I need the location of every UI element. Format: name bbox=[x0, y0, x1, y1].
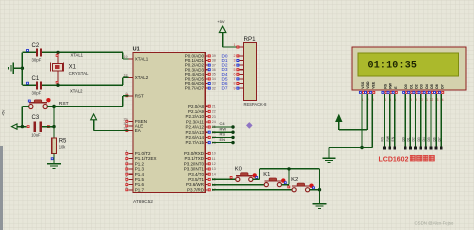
svg-text:1: 1 bbox=[126, 149, 128, 153]
svg-text:1: 1 bbox=[234, 43, 236, 47]
svg-text:CRYSTAL: CRYSTAL bbox=[69, 71, 89, 76]
svg-text:D7: D7 bbox=[440, 84, 444, 89]
svg-text:36: 36 bbox=[212, 68, 216, 72]
svg-text:D0: D0 bbox=[401, 137, 405, 141]
svg-text:XTAL1: XTAL1 bbox=[71, 52, 84, 57]
svg-text:C3: C3 bbox=[32, 115, 40, 121]
svg-text:22: 22 bbox=[212, 110, 216, 114]
svg-text:XTAL2: XTAL2 bbox=[70, 88, 83, 93]
svg-text:2: 2 bbox=[234, 54, 236, 58]
svg-text:24: 24 bbox=[212, 120, 216, 124]
svg-text:RS: RS bbox=[384, 83, 388, 89]
svg-text:4: 4 bbox=[126, 165, 128, 169]
svg-text:VDD: VDD bbox=[366, 81, 370, 89]
svg-text:P1.7: P1.7 bbox=[135, 187, 145, 192]
svg-text:D2: D2 bbox=[412, 137, 416, 141]
svg-text:RP1: RP1 bbox=[244, 36, 257, 43]
svg-text:3: 3 bbox=[126, 160, 128, 164]
svg-text:U1: U1 bbox=[133, 47, 140, 53]
svg-text:EA: EA bbox=[135, 128, 141, 133]
svg-text:K2: K2 bbox=[291, 177, 298, 183]
svg-text:33: 33 bbox=[212, 82, 216, 86]
svg-text:P0.7/AD7: P0.7/AD7 bbox=[185, 86, 205, 91]
svg-text:7: 7 bbox=[234, 77, 236, 81]
svg-text:X1: X1 bbox=[69, 65, 77, 71]
svg-text:6: 6 bbox=[126, 175, 128, 179]
svg-text:EN: EN bbox=[220, 137, 226, 142]
svg-text:14: 14 bbox=[212, 172, 216, 176]
svg-text:12: 12 bbox=[212, 162, 216, 166]
svg-text:7: 7 bbox=[126, 181, 128, 185]
svg-text:C2: C2 bbox=[32, 43, 40, 49]
svg-text:D3: D3 bbox=[417, 137, 421, 141]
svg-text:RST: RST bbox=[135, 93, 144, 98]
svg-text:D5: D5 bbox=[427, 137, 431, 141]
svg-text:30pF: 30pF bbox=[32, 90, 42, 95]
svg-text:RW: RW bbox=[386, 135, 390, 141]
svg-text:VSS: VSS bbox=[361, 81, 365, 89]
svg-text:D3: D3 bbox=[420, 84, 424, 89]
svg-text:CSDN @Alex-Fejso: CSDN @Alex-Fejso bbox=[415, 221, 454, 226]
svg-text:+5v: +5v bbox=[2, 110, 6, 116]
svg-text:LCD1602: LCD1602 bbox=[379, 156, 409, 163]
svg-text:D2: D2 bbox=[415, 84, 419, 89]
svg-text:AT89C52: AT89C52 bbox=[133, 199, 153, 205]
svg-text:K0: K0 bbox=[235, 167, 242, 173]
svg-text:RW: RW bbox=[389, 82, 393, 88]
svg-text:D1: D1 bbox=[409, 84, 413, 89]
svg-text:RS: RS bbox=[381, 136, 385, 141]
svg-text:30pF: 30pF bbox=[32, 58, 42, 63]
svg-text:XTAL1: XTAL1 bbox=[135, 57, 149, 62]
svg-text:29: 29 bbox=[124, 117, 128, 121]
svg-text:21: 21 bbox=[212, 104, 216, 108]
svg-text:XTAL2: XTAL2 bbox=[135, 75, 149, 80]
svg-text:35: 35 bbox=[212, 73, 216, 77]
svg-text:23: 23 bbox=[212, 115, 216, 119]
svg-text:5: 5 bbox=[234, 68, 236, 72]
svg-text:D4: D4 bbox=[425, 84, 429, 89]
svg-text:10uF: 10uF bbox=[31, 132, 41, 137]
svg-text:10k: 10k bbox=[59, 144, 67, 149]
svg-text:D6: D6 bbox=[435, 84, 439, 89]
svg-text:D6: D6 bbox=[432, 137, 436, 141]
svg-text:D0: D0 bbox=[404, 84, 408, 89]
svg-text:4: 4 bbox=[234, 63, 236, 67]
svg-text:D7: D7 bbox=[222, 86, 228, 91]
svg-text:D7: D7 bbox=[437, 137, 441, 141]
svg-text:P3.7/RD: P3.7/RD bbox=[187, 187, 205, 192]
svg-text:11: 11 bbox=[212, 157, 216, 161]
svg-text:K1: K1 bbox=[263, 172, 270, 178]
svg-text:8: 8 bbox=[126, 186, 128, 190]
svg-text:6: 6 bbox=[234, 73, 236, 77]
svg-text:C1: C1 bbox=[32, 76, 40, 82]
svg-text:10: 10 bbox=[212, 152, 216, 156]
svg-text:9: 9 bbox=[234, 86, 236, 90]
svg-text:+5V: +5V bbox=[217, 19, 225, 24]
svg-text:RESPACK-8: RESPACK-8 bbox=[244, 102, 268, 107]
svg-text:13: 13 bbox=[212, 167, 216, 171]
svg-text:30: 30 bbox=[124, 122, 128, 126]
svg-text:32: 32 bbox=[212, 86, 216, 90]
svg-text:34: 34 bbox=[212, 77, 216, 81]
svg-text:D5: D5 bbox=[430, 84, 434, 89]
svg-text:38: 38 bbox=[212, 59, 216, 63]
svg-text:39: 39 bbox=[212, 54, 216, 58]
svg-text:P2.7/A15: P2.7/A15 bbox=[185, 140, 204, 145]
svg-text:37: 37 bbox=[212, 63, 216, 67]
svg-text:3: 3 bbox=[234, 59, 236, 63]
svg-text:D4: D4 bbox=[422, 137, 426, 141]
svg-text:8: 8 bbox=[234, 82, 236, 86]
svg-text:5: 5 bbox=[126, 170, 128, 174]
svg-text:2: 2 bbox=[126, 155, 128, 159]
svg-text:EN: EN bbox=[391, 136, 395, 141]
svg-text:D1: D1 bbox=[407, 137, 411, 141]
svg-text:VEE: VEE bbox=[371, 81, 375, 89]
svg-text:01:10:35: 01:10:35 bbox=[368, 61, 418, 72]
